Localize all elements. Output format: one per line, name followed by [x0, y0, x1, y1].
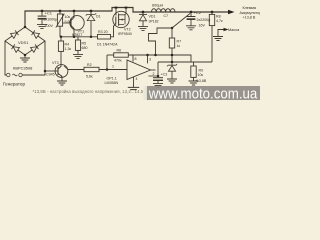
capacitor C2 [190, 12, 192, 16]
svg-text:+С3: +С3 [161, 72, 168, 76]
node rail-D1 [90, 36, 93, 39]
node rail-R4 [60, 36, 63, 39]
svg-text:R6: R6 [117, 49, 122, 53]
output arrow [228, 10, 235, 14]
resistor R6 [107, 54, 114, 56]
node bus-D1 [90, 10, 93, 13]
svg-text:1,3к: 1,3к [65, 47, 72, 51]
AC tilde [13, 74, 18, 76]
wire generator left [5, 41, 6, 75]
wire top bus [25, 8, 229, 28]
svg-text:+13,8 В: +13,8 В [243, 15, 256, 19]
svg-text:470к: 470к [114, 59, 122, 63]
svg-text:R9: R9 [199, 68, 204, 72]
node bus-VT1 [73, 10, 76, 13]
wire emitter rail [60, 36, 98, 38]
svg-text:R5: R5 [82, 41, 87, 45]
svg-text:4: 4 [136, 77, 138, 81]
wire R1 wiper to VT1 base [63, 22, 71, 24]
ground op-amp pin 4 [128, 87, 139, 89]
wire reference rail H1 [128, 55, 191, 62]
node bus-R8 [211, 11, 214, 14]
wire diagonal to R7 [172, 14, 190, 29]
svg-text:2x2200µ: 2x2200µ [197, 18, 211, 22]
wire pin 8 supply stub [132, 55, 134, 62]
terminal gen-2 [19, 73, 22, 76]
node bus-C2 [190, 11, 193, 14]
svg-text:ОР1.1: ОР1.1 [107, 77, 117, 81]
node bridge bottom [24, 54, 27, 57]
diode VDS1 top-left [11, 30, 19, 38]
ground VD2 [167, 79, 177, 83]
wire VT3 collector to R2 [64, 66, 68, 70]
zener VD2 [171, 62, 173, 65]
svg-text:1: 1 [112, 64, 114, 68]
ground VT3 emitter [57, 81, 67, 85]
diode VDS1 top-right [32, 30, 40, 38]
node H1-sbend [154, 54, 157, 57]
svg-text:16V: 16V [199, 24, 206, 28]
svg-text:*13,8В: *13,8В [196, 79, 207, 83]
svg-text:D1 1N4742A: D1 1N4742A [97, 42, 118, 46]
wire rail H2 [158, 61, 212, 63]
resistor R4 [60, 37, 62, 41]
ground C1 [37, 25, 47, 29]
resistor R5 [77, 37, 79, 40]
node input [106, 68, 109, 71]
wire massa [218, 30, 224, 37]
svg-text:Клемма: Клемма [243, 6, 257, 10]
ground R5 [73, 54, 83, 58]
svg-text:1к: 1к [177, 44, 181, 48]
ground C2 [186, 26, 196, 30]
svg-text:+С2: +С2 [194, 10, 202, 15]
diode VD1 [142, 12, 144, 14]
svg-text:VDS1: VDS1 [18, 40, 29, 45]
svg-text:VT2: VT2 [124, 28, 131, 32]
svg-text:www.moto.com.ua: www.moto.com.ua [148, 86, 258, 100]
svg-text:+С1: +С1 [45, 11, 53, 16]
svg-text:ЗР182: ЗР182 [149, 20, 159, 24]
wire VT3 base [45, 70, 58, 72]
resistor R3 [98, 34, 111, 39]
watermark band [144, 86, 261, 100]
svg-text:10к: 10к [65, 15, 71, 19]
wire generator right [22, 41, 45, 75]
resistor R9 [193, 62, 195, 66]
node diag-R7 [171, 27, 174, 30]
svg-text:*13,8В - настройка выходного н: *13,8В - настройка выходного напряжения,… [33, 89, 147, 94]
wire S-bend from diagonal node to pin3 rail [149, 28, 173, 55]
wire pin 4 stub [133, 77, 135, 87]
capacitor C1 [41, 11, 43, 16]
node H2-VD2 [171, 61, 174, 64]
svg-text:R4: R4 [65, 42, 70, 46]
MOSFET VT2 [113, 11, 129, 27]
terminal gen-1 [7, 73, 10, 76]
ground massa [213, 37, 223, 41]
node H1-R7 [171, 54, 174, 57]
svg-text:680: 680 [82, 46, 88, 50]
svg-text:4,7к: 4,7к [216, 19, 223, 23]
svg-text:IRF9540: IRF9540 [118, 32, 132, 36]
svg-text:КВРС3508: КВРС3508 [13, 66, 33, 71]
svg-text:100V: 100V [45, 24, 54, 28]
svg-text:10к: 10к [198, 73, 204, 77]
resistor R8 [211, 12, 213, 14]
inductor L1 [152, 9, 175, 12]
node bus-C1 [41, 10, 44, 13]
svg-text:R7: R7 [177, 39, 182, 43]
svg-text:С7: С7 [164, 14, 169, 18]
svg-text:600µН: 600µН [152, 3, 164, 7]
svg-text:D1: D1 [96, 15, 101, 19]
node bridge top [24, 26, 27, 29]
op-amp OP1.1 [127, 60, 151, 80]
svg-text:5,6к: 5,6к [86, 74, 93, 78]
svg-text:Аккумулятора: Аккумулятора [240, 11, 261, 15]
svg-text:2: 2 [153, 72, 155, 76]
node H1-pin3 [146, 54, 149, 57]
capacitor C3 [157, 62, 159, 77]
wire op-amp output [151, 69, 156, 71]
svg-text:Масса: Масса [228, 28, 240, 32]
bridge rectifier VDS1 [5, 27, 45, 55]
svg-text:VT3: VT3 [52, 61, 59, 65]
node bus-VD1 [142, 11, 145, 14]
svg-text:3: 3 [149, 58, 151, 62]
ground bridge [24, 55, 26, 58]
ground R9 [189, 81, 199, 85]
svg-text:R8: R8 [216, 14, 221, 18]
svg-text:R2: R2 [87, 63, 92, 67]
ground VD1 [138, 26, 148, 30]
svg-text:Генератор: Генератор [3, 82, 25, 87]
diode VDS1 bottom-left [12, 44, 20, 52]
diode VDS1 bottom-right [31, 44, 39, 52]
ground C3 [153, 83, 163, 87]
wire pin 3 stub [147, 55, 149, 63]
trimmer R1 [59, 11, 61, 14]
transistor VT1 [70, 16, 84, 30]
svg-text:LM358N: LM358N [105, 81, 119, 85]
resistor R7 [171, 28, 173, 38]
node bus-R1 [59, 10, 62, 13]
transistor VT3 [55, 65, 68, 78]
zener D1 [90, 11, 92, 14]
resistor R2 horizontal [68, 69, 85, 71]
svg-text:VD1: VD1 [149, 15, 156, 19]
svg-text:С945: С945 [46, 73, 55, 77]
svg-text:8: 8 [135, 57, 137, 61]
node rail-VT1 [73, 36, 76, 39]
svg-text:2x1000µ: 2x1000µ [44, 18, 58, 22]
svg-text:R3 20: R3 20 [98, 30, 108, 34]
